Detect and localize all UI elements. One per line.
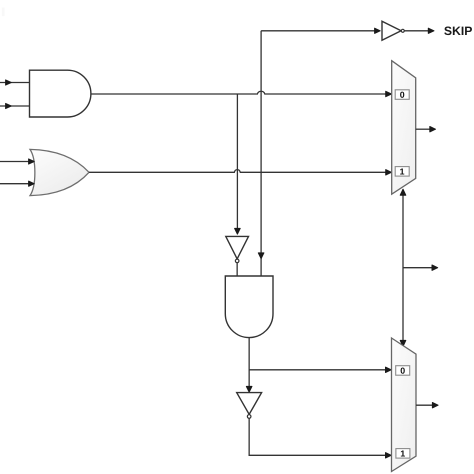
AND gate U1	[30, 70, 91, 117]
wire select net: M1 select to M2 select with side tap	[400, 189, 406, 346]
wire node B to MUX2 input 0	[249, 367, 391, 372]
wire select tap output	[403, 265, 438, 270]
wire U1 output to MUX1 input 0 (hops over SKIP net at x=261)	[91, 91, 391, 96]
inverter U4	[226, 236, 249, 262]
OR gate U2	[30, 149, 89, 195]
wire SKIP net: horizontal run to buffer U3 input	[261, 28, 380, 33]
mux M1 port box 1	[395, 167, 409, 177]
inverter U6	[237, 393, 262, 419]
inverter U3 (SKIP output buffer)	[382, 21, 404, 40]
wire M2 output	[416, 403, 438, 408]
mux M2 port box 1	[396, 449, 410, 459]
wire U4 output to U5 input	[236, 263, 238, 277]
wire U5 output down	[246, 338, 252, 392]
wire M1 output	[416, 127, 436, 132]
wire U2 input A	[0, 159, 34, 164]
mux M2	[392, 338, 417, 472]
wire U2 input B	[0, 181, 34, 186]
AND gate U5	[225, 276, 273, 338]
mux M1 port box 0	[395, 90, 409, 100]
wire node A: from U1 output down to inverter U4	[235, 94, 241, 234]
mux M2 port box 0	[396, 366, 410, 376]
wire U1 input B	[0, 103, 30, 108]
mux M1	[392, 61, 416, 195]
wire SKIP net: vertical run down to AND U5 input	[258, 31, 264, 277]
wire U2 output to MUX1 input 1 (hops over node A wire at x=237.4)	[89, 170, 391, 175]
wire U3 output to SKIP label	[404, 28, 434, 33]
label SKIP	[444, 26, 472, 35]
wire U1 input A	[0, 80, 30, 85]
wire U6 output to MUX2 input 1	[249, 419, 391, 459]
